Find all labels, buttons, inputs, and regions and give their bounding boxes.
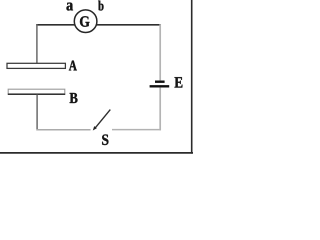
wire	[37, 129, 91, 131]
wire	[96, 24, 161, 26]
wire	[36, 24, 38, 63]
wire	[159, 88, 161, 131]
capacitor plate B	[8, 89, 65, 94]
label E	[175, 77, 183, 87]
wire	[36, 95, 38, 131]
label A	[69, 61, 77, 71]
capacitor plate A	[7, 63, 65, 68]
label S	[102, 135, 108, 146]
wire	[36, 24, 75, 26]
switch S	[93, 110, 111, 131]
node b	[98, 1, 103, 11]
wire	[112, 129, 161, 131]
wire	[159, 24, 161, 80]
galvanometer G	[74, 10, 97, 33]
battery E	[150, 82, 170, 87]
label B	[70, 93, 78, 103]
node a	[67, 3, 74, 11]
